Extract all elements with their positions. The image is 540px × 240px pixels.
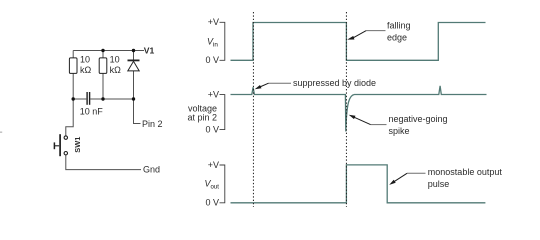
svg-text:+V: +V	[208, 90, 219, 100]
svg-text:negative-going: negative-going	[389, 114, 448, 124]
axis bracket Vin	[220, 22, 225, 60]
svg-text:monostable output: monostable output	[428, 167, 503, 177]
resistor R2	[99, 58, 107, 74]
svg-text:10: 10	[110, 55, 120, 65]
wire R2 top lead	[102, 51, 104, 59]
svg-text:+V: +V	[208, 160, 219, 170]
Vin axis labels	[205, 17, 219, 65]
wire R2 bottom lead	[102, 73, 104, 99]
waveform Vout	[231, 165, 486, 203]
axis bracket pin2	[220, 95, 225, 130]
waveform Vin	[231, 23, 486, 61]
svg-text:edge: edge	[387, 33, 407, 43]
R1 value label 10 kΩ	[80, 55, 92, 75]
wire cap left segment	[73, 98, 86, 100]
svg-text:Gnd: Gnd	[143, 165, 160, 175]
svg-text:falling: falling	[387, 21, 411, 31]
svg-text:Pin 2: Pin 2	[142, 119, 163, 129]
capacitor C1 plates	[87, 92, 90, 105]
wire switch to Gnd	[66, 155, 141, 169]
Vout axis labels	[205, 160, 219, 208]
axis bracket Vout	[220, 165, 225, 203]
svg-text:10 nF: 10 nF	[80, 106, 104, 116]
annotation suppressed by diode	[255, 78, 376, 89]
wire diode bottom lead	[133, 71, 135, 99]
diode D1	[128, 60, 140, 71]
resistor R1	[69, 58, 77, 74]
node junction dots	[72, 49, 136, 101]
wire R1 bottom lead	[72, 73, 74, 99]
R2 value label 10 kΩ	[110, 55, 122, 75]
svg-text:SW1: SW1	[73, 137, 82, 153]
svg-text:+V: +V	[208, 17, 219, 27]
svg-text:0 V: 0 V	[205, 125, 219, 135]
wire diode top lead	[133, 51, 135, 60]
waveform pin2 with spikes	[231, 86, 487, 132]
svg-text:0 V: 0 V	[205, 198, 219, 208]
annotation monostable output pulse	[389, 167, 502, 189]
pin2 axis labels	[187, 90, 219, 135]
svg-text:spike: spike	[389, 126, 410, 136]
dashed timing line 2	[345, 12, 347, 207]
wire R1 top lead	[72, 51, 74, 59]
wire junction to switch	[66, 99, 73, 136]
dashed timing line 1	[252, 12, 254, 207]
left-edge stray mark	[0, 132, 2, 133]
svg-text:kΩ: kΩ	[110, 65, 122, 75]
annotation falling edge	[347, 21, 410, 43]
svg-text:at pin 2: at pin 2	[187, 113, 217, 123]
annotation negative-going spike	[349, 114, 448, 136]
svg-text:kΩ: kΩ	[80, 65, 92, 75]
svg-text:V1: V1	[144, 46, 155, 56]
svg-text:10: 10	[80, 55, 90, 65]
svg-text:pulse: pulse	[428, 179, 450, 189]
svg-text:0 V: 0 V	[205, 55, 219, 65]
wire to Pin 2	[134, 99, 141, 124]
svg-text:suppressed by diode: suppressed by diode	[293, 78, 376, 88]
wire cap right segment	[90, 98, 133, 100]
switch SW1 pushbutton	[54, 134, 67, 156]
wire top rail to V1	[73, 50, 144, 52]
